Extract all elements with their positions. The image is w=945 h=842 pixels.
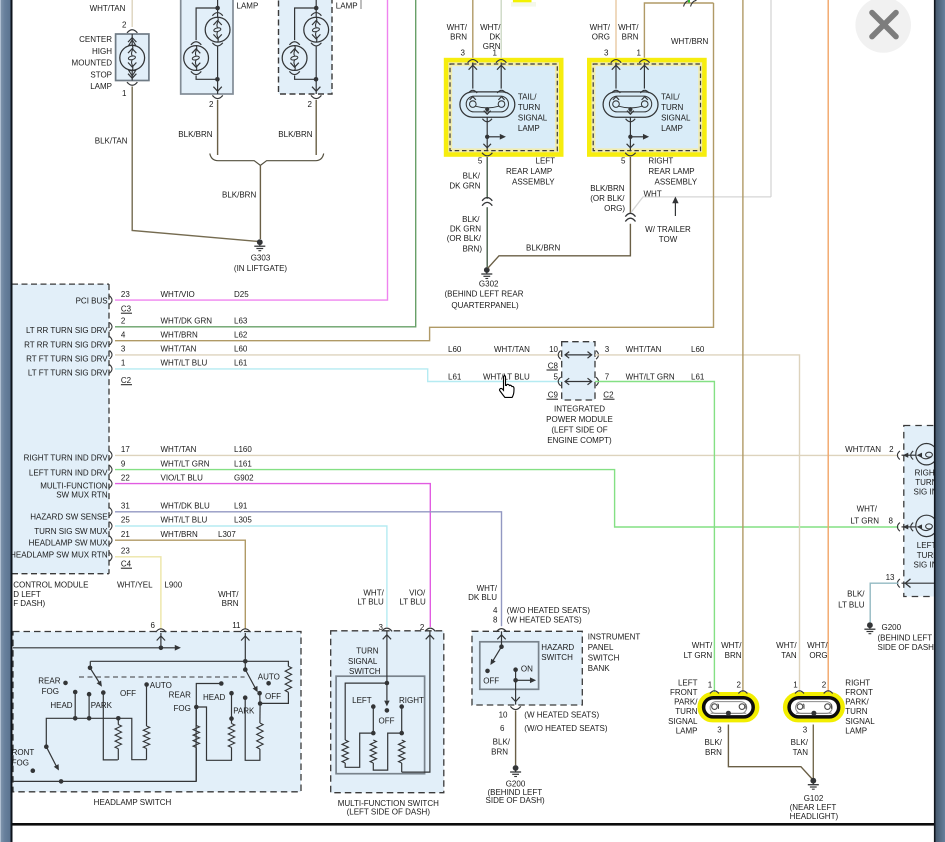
left scrollbar: [0, 0, 13, 842]
svg-text:DK BLU: DK BLU: [468, 593, 497, 602]
label RIGHT TURN SIG IND: [914, 469, 944, 497]
svg-text:L307: L307: [218, 530, 236, 539]
wire BLK/BRN from lamp2: [217, 100, 219, 155]
svg-text:L91: L91: [234, 502, 248, 511]
svg-text:D LEFT: D LEFT: [13, 590, 41, 599]
svg-text:SWITCH: SWITCH: [541, 653, 573, 662]
svg-text:C2: C2: [603, 391, 614, 400]
pin 8 label (hazard): [493, 616, 498, 625]
label PARK (right group): [233, 707, 255, 716]
caption HEADLAMP SWITCH: [94, 798, 172, 807]
wire WHT/BRN into left tail pin 3: [472, 0, 474, 58]
svg-text:6: 6: [151, 621, 156, 630]
connector arc below lamp right tail/turn signal lamp: [626, 119, 636, 122]
hazard output chevron: [511, 697, 519, 702]
svg-text:6: 6: [500, 724, 505, 733]
label AUTO (left group): [150, 681, 172, 690]
connector arc below lamp2 top bulb: [212, 43, 222, 46]
svg-text:DK: DK: [489, 33, 501, 42]
svg-text:SWITCH: SWITCH: [588, 654, 620, 663]
multi-function switch box: [331, 631, 444, 793]
svg-text:13: 13: [886, 573, 895, 582]
svg-text:LAMP: LAMP: [676, 726, 698, 735]
svg-text:SIGNAL: SIGNAL: [518, 113, 548, 122]
svg-text:WHT/LT BLU: WHT/LT BLU: [161, 359, 208, 368]
contact OFF (hazard): [485, 669, 490, 674]
net WHT/LT BLU L305 to MF switch pin3: [115, 526, 387, 627]
svg-text:2: 2: [822, 681, 827, 690]
label WHT: [644, 189, 662, 198]
label REAR FOG (left group): [38, 677, 60, 696]
svg-text:DK GRN: DK GRN: [449, 182, 480, 191]
svg-text:BRN: BRN: [622, 33, 639, 42]
FCM pin 22 row (y=483.6): [110, 473, 255, 488]
pin 3 label left tail: [461, 49, 466, 58]
svg-text:PARK/: PARK/: [674, 698, 698, 707]
svg-text:PARK: PARK: [91, 701, 113, 710]
svg-text:1: 1: [708, 681, 713, 690]
svg-text:WHT/: WHT/: [363, 588, 384, 597]
svg-text:WHT/LT GRN: WHT/LT GRN: [161, 459, 210, 468]
pin 4 label (hazard): [493, 606, 498, 615]
wire WHT/ORG to right front lamp: [827, 0, 829, 693]
svg-text:SIGNAL: SIGNAL: [348, 657, 378, 666]
svg-text:WHT/TAN: WHT/TAN: [161, 344, 197, 353]
label BLK/BRN (lamp3): [278, 130, 312, 139]
IPM connector C8: [547, 361, 559, 370]
connector arc at hazard pin 10: [510, 706, 520, 709]
svg-text:(OR BLK/: (OR BLK/: [447, 234, 482, 243]
wire BLK/TAN right front pin3 to G102: [812, 725, 814, 779]
arrow W/ TRAILER TOW: [672, 197, 678, 217]
svg-text:C3: C3: [121, 305, 132, 314]
wire BLK/BRN from lamp3: [315, 100, 317, 155]
svg-text:3: 3: [803, 725, 808, 734]
connector arc at left tail/turn signal lamp pin 5: [482, 153, 492, 156]
svg-text:DK GRN: DK GRN: [450, 225, 481, 234]
dual-filament lamp symbol right tail/turn signal lamp: [603, 90, 658, 117]
right tail/turn signal lamp pin5 wire and branch arrow: [627, 117, 650, 151]
resistor R6 AUTO (headlamp): [260, 661, 292, 703]
label OFF (right group): [265, 692, 281, 701]
svg-text:10: 10: [499, 710, 508, 719]
label BLK/BRN (horizontal run): [526, 244, 560, 253]
label LAMP (box 2): [237, 2, 259, 11]
instrument panel switch bank box: [472, 631, 582, 705]
connector arc below lamp3 left bulb: [289, 71, 299, 74]
contact PARK (right group): [243, 695, 260, 760]
label G303: [234, 254, 288, 274]
wire BLK/LT BLU pin13 to G200: [870, 583, 898, 622]
label BLK/BRN (OR BLK/ORG): [590, 184, 625, 213]
connector arc at CHMSL pin 1: [127, 82, 137, 85]
svg-text:BRN: BRN: [450, 33, 467, 42]
resistor R1 (headlamp): [115, 718, 121, 760]
net WHT/LT GRN L61 IPM to left front lamp: [595, 382, 714, 693]
FCM pin 25 row (y=526.0): [110, 516, 253, 531]
svg-text:W/ TRAILER: W/ TRAILER: [645, 225, 691, 234]
label WHT/BRN (left front): [721, 641, 742, 660]
lamp2 internal wiring top: [196, 0, 220, 40]
label BLK/BRN (splice): [222, 191, 256, 200]
svg-text:LT BLU: LT BLU: [357, 598, 384, 607]
contact HEAD (right group): [229, 691, 234, 721]
connector arcs at right front lamp: [795, 691, 833, 694]
svg-text:FOG: FOG: [174, 704, 191, 713]
svg-text:WHT/YEL: WHT/YEL: [117, 580, 153, 589]
svg-text:ORG: ORG: [592, 33, 610, 42]
label REAR FOG (right group): [169, 690, 191, 713]
connector arc below lamp left tail/turn signal lamp: [482, 119, 492, 122]
svg-text:1: 1: [637, 49, 642, 58]
label LEFT TURN SIG IND: [914, 541, 944, 569]
svg-text:FRONT: FRONT: [845, 688, 873, 697]
svg-text:(IN LIFTGATE): (IN LIFTGATE): [234, 264, 288, 273]
label WHT/LT GRN (left front): [684, 641, 713, 660]
svg-text:RIGHT: RIGHT: [648, 157, 673, 166]
svg-text:G102: G102: [804, 794, 824, 803]
svg-text:(W HEATED SEATS): (W HEATED SEATS): [507, 616, 582, 625]
svg-text:BLK/TAN: BLK/TAN: [95, 137, 128, 146]
caption TURN SIGNAL SWITCH: [348, 647, 381, 677]
svg-text:HEADLAMP SWITCH: HEADLAMP SWITCH: [94, 798, 172, 807]
mechanical linkage dashed: [79, 676, 245, 678]
MF pin2 wire to common: [402, 632, 434, 773]
bulb lamp2 left: [184, 46, 209, 71]
svg-text:WHT/LT GRN: WHT/LT GRN: [626, 373, 675, 382]
svg-text:4: 4: [121, 330, 126, 339]
svg-text:23: 23: [121, 290, 130, 299]
label G102: [790, 794, 839, 821]
svg-text:TAIL/: TAIL/: [661, 92, 680, 101]
svg-text:2: 2: [889, 445, 894, 454]
label WHT/TAN 2 (cluster): [845, 445, 894, 454]
FCM pin 3 row (y=354.7): [110, 344, 248, 359]
svg-text:L61: L61: [448, 373, 462, 382]
wire BLK/BRN splice to G303: [259, 165, 261, 239]
caption MULTI-FUNCTION SWITCH: [338, 799, 439, 817]
cluster left turn indicator lamp: [897, 515, 937, 536]
svg-text:G902: G902: [234, 473, 254, 482]
svg-text:(W/O HEATED SEATS): (W/O HEATED SEATS): [507, 606, 591, 615]
svg-text:WHT/TAN: WHT/TAN: [626, 345, 662, 354]
label PARK (left group): [91, 701, 113, 710]
pin 1 of CHMSL: [122, 89, 127, 98]
pin 1 label left tail: [493, 49, 498, 58]
svg-text:SWITCH: SWITCH: [349, 667, 381, 676]
label (W/O HEATED SEATS) pin6: [524, 724, 608, 733]
FCM pin 31 row (y=511.8): [110, 502, 248, 517]
svg-text:SIDE OF DASH): SIDE OF DASH): [878, 643, 937, 652]
svg-text:CENTER: CENTER: [79, 35, 112, 44]
pin 2 of CHMSL: [122, 21, 127, 30]
label (W HEATED SEATS) pin8: [507, 616, 582, 625]
bulb of CHMSL: [120, 45, 145, 70]
MF pin3 wire to pivot: [383, 632, 391, 686]
label OFF (hazard): [483, 676, 499, 685]
inline connector on left tail ground wire: [482, 198, 492, 206]
label RIGHT REAR LAMP ASSEMBLY: [648, 157, 697, 187]
pin 2 of lamp3: [308, 100, 313, 109]
svg-text:G200: G200: [506, 779, 526, 788]
IPM pin 10: [549, 345, 558, 354]
label WHT/LT GRN 8 (cluster): [850, 505, 893, 526]
svg-text:WHT/: WHT/: [807, 641, 828, 650]
svg-text:L61: L61: [234, 359, 248, 368]
instrument cluster box: [904, 426, 945, 597]
net WHT/TAN L60 FCM to IPM: [115, 354, 562, 356]
svg-text:HAZARD: HAZARD: [541, 643, 574, 652]
label TAIL/TURN SIGNAL LAMP (right tail/turn signal lamp): [661, 92, 691, 133]
svg-text:L60: L60: [691, 345, 705, 354]
ground G200 behind dash (right): [864, 622, 875, 633]
connector label C4: [121, 560, 132, 569]
svg-text:BRN): BRN): [462, 244, 482, 253]
svg-text:ORG: ORG: [809, 651, 827, 660]
label BLK/LT BLU: [838, 590, 865, 610]
net WHT/DK BLU L91 to hazard switch: [115, 512, 502, 627]
headlamp pin11 feed: [241, 633, 249, 672]
svg-text:1: 1: [793, 681, 798, 690]
pin 3 label right tail: [604, 49, 609, 58]
pin 1 label right tail: [637, 49, 642, 58]
integrated power module box: [562, 342, 595, 400]
connector arc at hazard pin: [496, 629, 506, 632]
wire BLK/BRN left front pin3 to G102: [728, 725, 812, 780]
svg-text:HEADLAMP SW MUX RTN: HEADLAMP SW MUX RTN: [10, 550, 108, 559]
bulb lamp2 top: [205, 17, 230, 42]
label OFF (MF): [379, 717, 395, 726]
svg-text:L60: L60: [448, 345, 462, 354]
svg-text:1: 1: [493, 49, 498, 58]
connector arc above lamp3 top bulb: [311, 13, 321, 16]
svg-text:TURN: TURN: [661, 103, 683, 112]
headlamp bus1: [46, 716, 146, 760]
close button: [855, 0, 911, 53]
svg-text:OFF: OFF: [379, 717, 395, 726]
inline connector on right tail ground wire: [625, 213, 635, 221]
connector arc at headlamp pin 6: [156, 629, 166, 632]
lamp box 3: [279, 0, 333, 94]
right front park/turn signal lamp: [786, 695, 842, 720]
svg-text:WHT/: WHT/: [590, 23, 611, 32]
label BLK/TAN: [95, 137, 128, 146]
svg-text:LEFT: LEFT: [352, 696, 372, 705]
label VIO/LT BLU (pin2 drop): [399, 588, 426, 606]
connector label C2: [121, 376, 132, 385]
connector arc at MF pin 2: [425, 628, 435, 631]
svg-text:WHT/VIO: WHT/VIO: [161, 290, 195, 299]
svg-text:BRN: BRN: [705, 748, 722, 757]
svg-text:C8: C8: [548, 361, 559, 370]
svg-text:TURN: TURN: [845, 707, 867, 716]
wire WHT/BRN park feed to left front lamp: [742, 0, 744, 693]
bulb lamp3 left: [282, 46, 307, 71]
FCM pin 17 row (y=455.4): [110, 445, 253, 460]
caption HAZARD SWITCH: [541, 643, 574, 662]
svg-text:TURN: TURN: [518, 103, 540, 112]
wire WHT/TAN to CHMSL pin 2: [131, 0, 133, 27]
ground G200 (hazard): [510, 765, 521, 776]
svg-text:QUARTERPANEL): QUARTERPANEL): [451, 301, 519, 310]
label AUTO (right group): [258, 672, 280, 681]
label LEFT REAR LAMP ASSEMBLY: [506, 157, 555, 187]
svg-text:D25: D25: [234, 290, 249, 299]
svg-text:2: 2: [122, 21, 127, 30]
svg-text:2: 2: [736, 681, 741, 690]
svg-text:OFF: OFF: [265, 692, 281, 701]
contact OFF (left group): [101, 690, 118, 760]
svg-text:BLK/BRN: BLK/BRN: [590, 184, 624, 193]
svg-text:WHT/DK GRN: WHT/DK GRN: [161, 317, 213, 326]
hazard pin feed: [497, 631, 505, 649]
pin 5 label right tail/turn signal lamp: [621, 157, 626, 166]
svg-text:5: 5: [554, 373, 559, 382]
pin 3 label (MF switch): [379, 623, 384, 632]
svg-text:7: 7: [605, 373, 610, 382]
svg-text:BLK/: BLK/: [705, 738, 723, 747]
label WHT/ORG (right front): [807, 641, 828, 660]
svg-text:INTEGRATED: INTEGRATED: [554, 405, 605, 414]
svg-text:LAMP: LAMP: [661, 124, 683, 133]
svg-text:L160: L160: [234, 445, 252, 454]
lamp3 internal wiring bottom: [295, 46, 321, 94]
svg-text:LAMP: LAMP: [845, 726, 867, 735]
connector arc at lamp2 pin 2: [212, 95, 222, 98]
label (W HEATED SEATS) pin10: [524, 710, 599, 719]
pin labels right front lamp: [793, 681, 827, 735]
turn signal blade: [384, 683, 389, 713]
connector arc below lamp2 left bulb: [191, 71, 201, 74]
right scrollbar: [934, 0, 945, 842]
svg-text:(NEAR LEFT: (NEAR LEFT: [790, 803, 837, 812]
svg-text:WHT/BRN: WHT/BRN: [671, 37, 709, 46]
svg-text:5: 5: [478, 157, 483, 166]
connector arc above lamp3 left bulb: [289, 42, 299, 45]
svg-text:WHT/DK BLU: WHT/DK BLU: [161, 502, 211, 511]
net WHT/TAN L160 to cluster pin2: [115, 454, 899, 456]
IPM pin 3: [605, 345, 610, 354]
label OFF (left group): [120, 689, 136, 698]
svg-text:G302: G302: [479, 280, 499, 289]
svg-text:3: 3: [604, 49, 609, 58]
svg-text:BLK/: BLK/: [791, 738, 809, 747]
svg-text:8: 8: [493, 616, 498, 625]
bulb lamp3 top: [304, 17, 329, 42]
mouse cursor (hand pointer): [500, 375, 514, 397]
svg-text:17: 17: [121, 445, 130, 454]
svg-text:RIGHT: RIGHT: [399, 696, 424, 705]
label G200 (hazard): [486, 779, 545, 805]
svg-text:23: 23: [121, 547, 130, 556]
left front park/turn signal lamp: [700, 695, 756, 720]
bottom frame line: [0, 823, 945, 826]
svg-text:2: 2: [420, 623, 425, 632]
label WHT/TAN (right front): [776, 641, 797, 660]
svg-text:BLK/: BLK/: [463, 172, 481, 181]
MF common feed resistor: [342, 683, 387, 767]
connector arcs at left tail/turn signal lamp pins: [468, 60, 507, 63]
svg-text:REAR LAMP: REAR LAMP: [648, 167, 694, 176]
svg-text:TAN: TAN: [781, 651, 797, 660]
pin 11 label: [232, 621, 241, 630]
label BLK/TAN (right front): [791, 738, 809, 757]
svg-text:WHT/LT BLU: WHT/LT BLU: [161, 516, 208, 525]
ground G102: [808, 778, 819, 789]
front control module box: [0, 284, 109, 574]
svg-text:3: 3: [605, 345, 610, 354]
label WHT/TAN L60 (right of IPM): [626, 345, 705, 354]
contact OFF (right group): [257, 691, 262, 706]
svg-text:WHT/: WHT/: [618, 23, 639, 32]
stub line right of LAMP label: [360, 0, 362, 9]
svg-text:TURN: TURN: [675, 707, 697, 716]
svg-text:WHT: WHT: [644, 189, 662, 198]
headlamp pin6 feed with junction: [13, 633, 181, 651]
wire BLK/BRN from right tail pin5: [629, 157, 631, 214]
svg-text:1: 1: [122, 89, 127, 98]
net WHT/BRN L307 to headlamp switch pin11: [115, 540, 245, 629]
contact FRONT FOG: [31, 768, 36, 773]
svg-text:C9: C9: [548, 391, 559, 400]
svg-text:OFF: OFF: [483, 676, 499, 685]
headlamp bus y661: [90, 660, 289, 662]
label BLK/BRN (hazard): [491, 738, 511, 757]
label WHT/BRN (right tail pin1): [618, 23, 639, 42]
svg-text:WHT/: WHT/: [447, 23, 468, 32]
connector arc above lamp2 top bulb: [212, 13, 222, 16]
pin 6 label (hazard): [500, 724, 505, 733]
svg-text:C2: C2: [121, 376, 132, 385]
svg-text:LT GRN: LT GRN: [850, 516, 879, 525]
caption INSTRUMENT PANEL SWITCH BANK: [588, 633, 641, 674]
label WHT/YEL L900: [117, 580, 183, 589]
switch blade 2 (headlamp right): [246, 670, 258, 692]
lamp3 internal wiring top: [295, 0, 319, 40]
svg-text:LEFT: LEFT: [917, 541, 937, 550]
label L61 WHT/LT BLU (left of IPM): [448, 373, 530, 382]
highlight box left tail/turn signal lamp: [444, 58, 564, 157]
svg-text:ASSEMBLY: ASSEMBLY: [655, 177, 698, 186]
svg-text:LEFT TURN IND DRV: LEFT TURN IND DRV: [29, 469, 108, 478]
label BLK/BRN (left front): [705, 738, 723, 757]
svg-text:BLK/: BLK/: [493, 738, 511, 747]
label BLK/DK GRN (OR BLK/BRN): [447, 215, 483, 253]
svg-text:FOG: FOG: [12, 758, 29, 767]
svg-text:G200: G200: [882, 623, 902, 632]
label WHT/ORG (right tail pin3): [590, 23, 611, 42]
svg-text:WHT/LT BLU: WHT/LT BLU: [483, 373, 530, 382]
svg-text:WHT/BRN: WHT/BRN: [161, 530, 199, 539]
label FRONT FOG (clipped): [7, 748, 35, 768]
svg-text:ENGINE COMPT): ENGINE COMPT): [547, 436, 612, 445]
svg-text:1: 1: [121, 359, 126, 368]
connector arc above lamp2 left bulb: [191, 42, 201, 45]
svg-text:WHT/TAN: WHT/TAN: [845, 445, 881, 454]
svg-text:ON: ON: [521, 665, 533, 674]
svg-text:TURN SIG SW MUX: TURN SIG SW MUX: [34, 527, 108, 536]
ground G302: [481, 267, 492, 278]
resistor R8 (MF right): [399, 740, 405, 772]
label WHT/BRN (left tail pin3): [447, 23, 468, 42]
net WHT/LT BLU L61 FCM to IPM: [115, 369, 562, 382]
inline connector marks on WHT/BRN top run: [684, 0, 697, 7]
IPM pin 5: [554, 373, 559, 382]
svg-text:PANEL: PANEL: [588, 643, 614, 652]
svg-text:LT RR TURN SIG DRV: LT RR TURN SIG DRV: [26, 326, 108, 335]
svg-text:3: 3: [717, 725, 722, 734]
label RIGHT (MF): [399, 696, 424, 705]
